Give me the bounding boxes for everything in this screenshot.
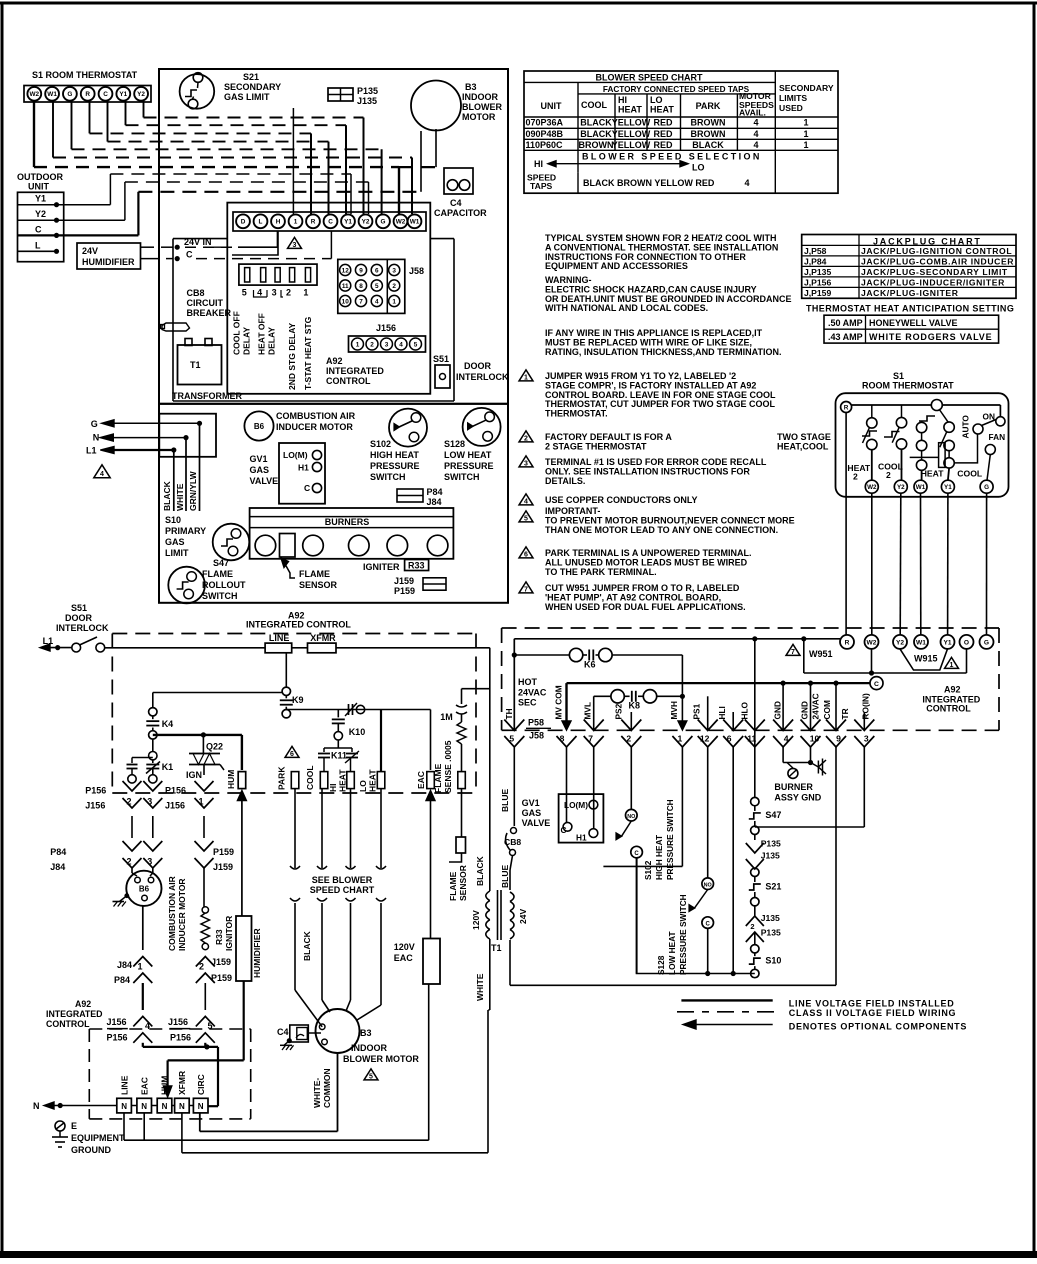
svg-text:C: C [35, 224, 42, 234]
svg-text:L: L [259, 219, 263, 226]
svg-text:HI: HI [534, 159, 543, 169]
svg-text:P135: P135 [357, 86, 378, 96]
svg-text:WHITE RODGERS VALVE: WHITE RODGERS VALVE [869, 332, 992, 342]
svg-text:BLOWER MOTOR: BLOWER MOTOR [343, 1054, 419, 1064]
burners box [250, 508, 454, 559]
fuse XFMR box [308, 643, 337, 653]
svg-text:VALVE: VALVE [250, 476, 279, 486]
svg-text:SWITCH: SWITCH [444, 472, 480, 482]
svg-text:GAS LIMIT: GAS LIMIT [224, 92, 270, 102]
svg-text:K11: K11 [331, 751, 347, 761]
svg-text:3: 3 [385, 342, 389, 349]
svg-text:ROOM THERMOSTAT: ROOM THERMOSTAT [862, 381, 954, 391]
svg-text:WITH NATIONAL AND LOCAL CODES.: WITH NATIONAL AND LOCAL CODES. [545, 303, 708, 313]
svg-text:1: 1 [950, 662, 954, 669]
wire cols 4 and 5 to CIRC [142, 1043, 144, 1047]
note 2 triangle [519, 431, 533, 442]
svg-text:J58: J58 [409, 266, 424, 276]
svg-text:2: 2 [524, 436, 528, 443]
svg-text:WHITE-: WHITE- [312, 1078, 322, 1108]
svg-text:INTEGRATED: INTEGRATED [326, 366, 384, 376]
svg-text:FLAME: FLAME [448, 871, 458, 901]
svg-text:DETAILS.: DETAILS. [545, 476, 585, 486]
svg-text:HUM: HUM [160, 1076, 170, 1095]
wires gnd pins stubs [782, 683, 784, 730]
svg-text:INDOOR: INDOOR [351, 1043, 388, 1053]
svg-text:120V: 120V [394, 942, 415, 952]
svg-text:CONTROL: CONTROL [46, 1019, 90, 1029]
svg-text:24VAC: 24VAC [518, 688, 547, 698]
relay contact K1 with capacitor [149, 752, 157, 760]
svg-text:S102: S102 [370, 439, 391, 449]
svg-text:R: R [311, 219, 316, 226]
svg-text:G: G [381, 219, 386, 226]
svg-text:C4: C4 [277, 1027, 289, 1037]
svg-text:3: 3 [293, 242, 297, 249]
connector P135 J135 chain [746, 843, 764, 853]
limit switch S47 chain [751, 797, 759, 805]
svg-text:THERMOSTAT.: THERMOSTAT. [545, 409, 608, 419]
connector IGN pin [195, 781, 214, 791]
svg-text:FAN: FAN [989, 432, 1006, 442]
svg-text:4: 4 [145, 1021, 150, 1031]
svg-text:INTEGRATED CONTROL: INTEGRATED CONTROL [246, 620, 351, 630]
svg-text:1M: 1M [440, 712, 453, 722]
svg-text:S102: S102 [643, 860, 653, 880]
svg-text:2 STAGE THERMOSTAT: 2 STAGE THERMOSTAT [545, 441, 647, 451]
svg-text:K1: K1 [162, 762, 174, 772]
svg-text:P159: P159 [213, 847, 234, 857]
svg-text:K4: K4 [162, 719, 174, 729]
outdoor unit box [18, 192, 64, 261]
24V humidifier box [77, 243, 141, 269]
svg-text:2ND STG DELAY: 2ND STG DELAY [287, 322, 297, 390]
svg-text:Y2: Y2 [35, 209, 46, 219]
svg-text:5: 5 [509, 734, 514, 744]
svg-text:SEE BLOWER: SEE BLOWER [312, 875, 373, 885]
HLI wire down [732, 747, 734, 974]
svg-text:MOTOR: MOTOR [462, 112, 496, 122]
note 3 triangle [519, 456, 533, 467]
svg-text:CLASS II VOLTAGE FIELD WIRING: CLASS II VOLTAGE FIELD WIRING [789, 1008, 956, 1018]
burner circles [255, 535, 276, 556]
svg-text:W2: W2 [396, 219, 406, 226]
wire humidifier to HUM neutral [243, 981, 245, 1060]
contact to HI HEAT [351, 748, 353, 752]
svg-text:USE COPPER CONDUCTORS ONLY: USE COPPER CONDUCTORS ONLY [545, 495, 698, 505]
transformer T1 [178, 345, 222, 385]
svg-text:GND: GND [800, 701, 810, 719]
wire W2 stub [871, 649, 873, 673]
svg-text:1: 1 [303, 288, 308, 298]
relay contact K9 [282, 687, 290, 695]
main rail top right [514, 638, 840, 640]
svg-text:P58: P58 [528, 718, 544, 728]
svg-text:N: N [141, 1102, 147, 1111]
svg-text:S10: S10 [165, 515, 181, 525]
svg-text:7: 7 [588, 734, 593, 744]
svg-text:RED: RED [653, 140, 673, 150]
svg-text:3: 3 [864, 734, 869, 744]
svg-text:BROWN: BROWN [691, 118, 726, 128]
svg-text:P135: P135 [761, 928, 781, 938]
svg-text:BLACK: BLACK [580, 118, 612, 128]
svg-text:HONEYWELL VALVE: HONEYWELL VALVE [869, 318, 958, 328]
svg-text:HUMIDIFIER: HUMIDIFIER [252, 928, 262, 978]
svg-text:5: 5 [369, 1074, 373, 1081]
svg-text:INTERLOCK: INTERLOCK [456, 372, 509, 382]
svg-text:INTERLOCK: INTERLOCK [56, 623, 109, 633]
note triangle 5 at B3 [364, 1069, 378, 1080]
svg-text:2: 2 [392, 283, 396, 290]
svg-text:P156: P156 [170, 1033, 191, 1043]
relay contact K10 [348, 704, 350, 715]
svg-text:VALVE: VALVE [522, 818, 551, 828]
svg-text:MVL: MVL [583, 702, 593, 720]
equipment ground [55, 1121, 65, 1131]
limit switch S10 chain [751, 945, 759, 953]
svg-text:SECONDARY: SECONDARY [779, 83, 834, 93]
svg-text:HEAT: HEAT [618, 105, 642, 115]
svg-text:Y2: Y2 [896, 639, 904, 646]
terminal row R W2 Y2 W1 Y1 O G [840, 635, 854, 649]
DIP switch block [239, 264, 317, 285]
svg-text:4: 4 [524, 499, 528, 506]
svg-text:BLOWER: BLOWER [462, 102, 502, 112]
see blower speed chart columns [290, 866, 300, 869]
svg-text:3: 3 [524, 461, 528, 468]
svg-text:COMMON: COMMON [322, 1068, 332, 1108]
svg-text:CIRCUIT: CIRCUIT [187, 298, 224, 308]
svg-text:1: 1 [678, 734, 683, 744]
wire outdoor C heavy [57, 234, 139, 236]
thermostat top rail [852, 404, 932, 406]
svg-text:Y2: Y2 [897, 484, 905, 491]
svg-text:LO(M): LO(M) [283, 450, 308, 460]
note 6 triangle [519, 547, 533, 558]
svg-text:E: E [71, 1121, 77, 1131]
wire terminal 1 drop [292, 108, 294, 214]
jumper W951 triangle [786, 644, 800, 655]
svg-text:24VAC: 24VAC [811, 693, 821, 719]
relay contact K8 [594, 695, 611, 697]
svg-text:PRESSURE: PRESSURE [444, 461, 494, 471]
svg-text:LIMIT: LIMIT [165, 548, 189, 558]
svg-text:LINE: LINE [119, 1075, 129, 1095]
svg-text:C: C [328, 219, 333, 226]
svg-text:JACK/PLUG-SECONDARY LIMIT: JACK/PLUG-SECONDARY LIMIT [861, 267, 1008, 277]
svg-text:TO THE PARK TERMINAL.: TO THE PARK TERMINAL. [545, 567, 657, 577]
wires pins to valve [566, 747, 568, 822]
svg-text:2: 2 [286, 288, 291, 298]
svg-text:J135: J135 [761, 851, 780, 861]
svg-text:SEC: SEC [518, 698, 537, 708]
switch heat 2 [867, 418, 877, 428]
svg-text:S128: S128 [444, 439, 465, 449]
svg-text:DELAY: DELAY [267, 327, 277, 355]
wire 24V IN dashed to H terminal [185, 246, 232, 248]
svg-text:N: N [179, 1102, 185, 1111]
svg-text:W951: W951 [809, 649, 833, 659]
svg-text:BLOWER SPEED SELECTION: BLOWER SPEED SELECTION [582, 152, 762, 162]
svg-text:BROWN: BROWN [579, 140, 614, 150]
svg-text:S51: S51 [433, 354, 449, 364]
svg-text:LO(M): LO(M) [564, 800, 588, 810]
svg-text:N: N [198, 1102, 204, 1111]
svg-text:2: 2 [370, 342, 374, 349]
svg-text:SENSOR: SENSOR [458, 865, 468, 901]
svg-text:LO: LO [692, 163, 705, 173]
svg-text:GND: GND [773, 701, 783, 719]
svg-text:USED: USED [779, 103, 803, 113]
svg-text:J,P84: J,P84 [804, 257, 827, 267]
svg-text:R: R [845, 639, 850, 646]
svg-text:GV1: GV1 [250, 454, 268, 464]
svg-text:1: 1 [524, 375, 528, 382]
heat cool stage switches [871, 405, 873, 417]
svg-text:C: C [706, 921, 711, 927]
connector P84 J84 [397, 489, 423, 502]
svg-text:4: 4 [753, 118, 758, 128]
flame sensor rect at burner [280, 534, 296, 558]
svg-text:1: 1 [803, 140, 808, 150]
svg-text:SENSE .0005: SENSE .0005 [443, 740, 453, 793]
svg-text:1: 1 [137, 962, 142, 972]
blower speed chart table [524, 71, 838, 193]
switch cool 2 [896, 417, 906, 427]
svg-text:J156: J156 [85, 801, 105, 811]
burner assy ground [782, 747, 784, 763]
svg-text:K8: K8 [629, 701, 641, 711]
relay contact K6 [513, 639, 515, 731]
svg-text:INTEGRATED: INTEGRATED [46, 1009, 103, 1019]
svg-text:11: 11 [747, 734, 756, 744]
svg-text:IGNITER: IGNITER [363, 562, 400, 572]
svg-text:COOL: COOL [305, 765, 315, 790]
svg-text:K9: K9 [292, 695, 304, 705]
svg-text:P84: P84 [50, 847, 66, 857]
svg-text:TRANSFORMER: TRANSFORMER [172, 391, 242, 401]
svg-text:AVAIL.: AVAIL. [739, 108, 766, 118]
svg-text:P156: P156 [165, 786, 186, 796]
svg-text:R: R [85, 91, 90, 98]
svg-text:Y2: Y2 [362, 219, 370, 226]
svg-text:RED: RED [653, 129, 673, 139]
svg-text:7: 7 [791, 649, 795, 656]
svg-text:BLACK: BLACK [302, 930, 312, 961]
svg-text:G: G [984, 484, 989, 491]
svg-text:W2: W2 [867, 484, 877, 491]
svg-text:PARK: PARK [277, 766, 287, 790]
note triangle 4 field wiring [94, 465, 110, 478]
switch heat 1 [916, 422, 926, 432]
svg-text:2: 2 [886, 470, 891, 480]
svg-text:BREAKER: BREAKER [187, 308, 232, 318]
24V secondary return [509, 940, 511, 985]
svg-text:C: C [304, 483, 310, 493]
jumper W915 bracket [900, 649, 948, 670]
svg-text:GAS: GAS [250, 465, 270, 475]
svg-text:EAC: EAC [394, 953, 414, 963]
wire bundle tstat to A92 strip [143, 101, 145, 118]
svg-text:DELAY: DELAY [242, 327, 252, 355]
svg-text:OUTDOOR: OUTDOOR [17, 172, 63, 182]
note 7 triangle [519, 582, 533, 593]
wire humidifier to 24V IN [140, 246, 154, 248]
svg-text:5: 5 [524, 516, 528, 523]
svg-text:2: 2 [750, 922, 754, 931]
svg-text:CB8: CB8 [504, 837, 521, 847]
svg-text:HLI: HLI [717, 706, 727, 719]
svg-text:CAPACITOR: CAPACITOR [434, 208, 487, 218]
svg-text:6: 6 [290, 751, 294, 758]
svg-text:ROLLOUT: ROLLOUT [202, 580, 246, 590]
svg-text:HUM: HUM [226, 770, 236, 789]
svg-text:YELLOW: YELLOW [612, 140, 651, 150]
svg-text:A92: A92 [326, 356, 343, 366]
svg-text:10: 10 [342, 298, 350, 305]
wire RO(IN) to S47 junction [863, 747, 865, 827]
svg-text:HEAT: HEAT [921, 469, 945, 479]
svg-text:S1 ROOM THERMOSTAT: S1 ROOM THERMOSTAT [32, 70, 138, 80]
svg-text:K6: K6 [584, 660, 596, 670]
flame sensor pointer [281, 558, 289, 568]
pressure switch S128 symbol [463, 408, 501, 446]
svg-text:Y1: Y1 [35, 194, 46, 204]
svg-text:P156: P156 [107, 1033, 128, 1043]
svg-text:W1: W1 [410, 219, 420, 226]
svg-text:4: 4 [784, 734, 789, 744]
svg-text:TAPS: TAPS [530, 181, 553, 191]
svg-text:BURNERS: BURNERS [325, 517, 370, 527]
svg-text:UNIT: UNIT [28, 182, 49, 192]
svg-text:J,P135: J,P135 [804, 267, 831, 277]
note 5 triangle [519, 511, 533, 522]
svg-text:H: H [276, 219, 281, 226]
svg-text:SPEED CHART: SPEED CHART [310, 885, 375, 895]
legend [681, 999, 772, 1001]
svg-text:5: 5 [242, 288, 247, 298]
svg-text:W2: W2 [867, 639, 877, 646]
svg-text:7: 7 [524, 587, 528, 594]
relay contact K4 [149, 708, 157, 716]
svg-text:D: D [241, 219, 246, 226]
wire PS1 to S128 [707, 747, 709, 878]
pin row bottom right [504, 720, 524, 731]
svg-text:SWITCH: SWITCH [370, 472, 406, 482]
wire C dashed to C terminal [196, 258, 331, 260]
svg-text:BLUE: BLUE [500, 789, 510, 812]
svg-text:S47: S47 [213, 558, 229, 568]
svg-text:EQUIPMENT AND ACCESSORIES: EQUIPMENT AND ACCESSORIES [545, 261, 688, 271]
wire LINE junction down [285, 653, 287, 687]
svg-text:S1: S1 [893, 371, 904, 381]
svg-text:PRESSURE SWITCH: PRESSURE SWITCH [678, 894, 688, 975]
HUM output [241, 735, 243, 770]
svg-text:J84: J84 [50, 862, 65, 872]
svg-text:Y2: Y2 [137, 91, 145, 98]
note triangle 6 ladder [285, 746, 299, 757]
svg-text:J,P159: J,P159 [804, 288, 831, 298]
blower motor B3 top [411, 81, 461, 131]
switch cool 1 arm from rail [931, 400, 942, 411]
wire TH to CB8 [513, 747, 515, 826]
svg-text:COM: COM [822, 700, 832, 719]
svg-text:W1: W1 [916, 639, 926, 646]
svg-text:LOW HEAT: LOW HEAT [444, 450, 492, 460]
svg-text:4: 4 [375, 298, 379, 305]
wire K9 top to K4 [153, 692, 282, 694]
svg-text:5: 5 [375, 283, 379, 290]
svg-text:XFMR: XFMR [310, 633, 336, 643]
svg-text:4: 4 [753, 140, 758, 150]
wire LINE EAC neutral run [123, 1113, 125, 1140]
svg-text:9: 9 [836, 734, 841, 744]
svg-text:4: 4 [100, 471, 104, 478]
svg-text:PS1: PS1 [692, 703, 702, 719]
svg-text:HIGH HEAT: HIGH HEAT [370, 450, 419, 460]
svg-text:HEAT: HEAT [368, 769, 378, 792]
svg-text:LINE: LINE [269, 633, 290, 643]
flame sensor probe [456, 837, 466, 853]
svg-text:T1: T1 [190, 360, 201, 370]
svg-text:S51: S51 [71, 603, 87, 613]
svg-text:1: 1 [803, 118, 808, 128]
wire outdoor Y2 to strip [57, 219, 125, 221]
svg-text:2: 2 [853, 472, 858, 482]
svg-text:LINE VOLTAGE FIELD INSTALLED: LINE VOLTAGE FIELD INSTALLED [789, 998, 955, 1008]
svg-text:IGNITOR: IGNITOR [224, 916, 234, 951]
motor B6 ladder [132, 873, 137, 876]
svg-text:CONTROL: CONTROL [326, 376, 371, 386]
svg-text:2: 2 [127, 797, 132, 807]
neutral terminal boxes [117, 1098, 132, 1113]
svg-text:GAS: GAS [165, 537, 185, 547]
svg-text:JACK/PLUG-INDUCER/IGNITER: JACK/PLUG-INDUCER/IGNITER [861, 278, 1005, 288]
connector J135 P135 chain up [746, 916, 764, 926]
svg-text:6: 6 [524, 552, 528, 559]
svg-text:CONTROL: CONTROL [926, 704, 971, 714]
svg-text:HEAT: HEAT [650, 105, 674, 115]
svg-text:R33: R33 [214, 929, 224, 945]
svg-text:W1: W1 [47, 91, 57, 98]
svg-text:EAC: EAC [416, 771, 426, 789]
wires into blower motor B3 [295, 990, 322, 1027]
svg-text:G: G [984, 639, 989, 646]
svg-text:WHITE: WHITE [175, 483, 185, 511]
A92 dashed box bottom-right [502, 627, 999, 629]
svg-text:BLOWER SPEED CHART: BLOWER SPEED CHART [595, 73, 703, 83]
blower motor B3 bottom [316, 1009, 360, 1053]
svg-text:MVH: MVH [669, 701, 679, 719]
connector J58 grid [338, 259, 405, 313]
svg-text:2: 2 [199, 962, 204, 972]
svg-text:CB8: CB8 [187, 288, 205, 298]
svg-text:090P48B: 090P48B [526, 129, 564, 139]
svg-text:HEAT: HEAT [847, 463, 871, 473]
svg-text:SENSOR: SENSOR [299, 580, 338, 590]
svg-text:S47: S47 [765, 810, 781, 820]
wire outdoor Y1 to strip [57, 204, 111, 206]
svg-text:.43 AMP: .43 AMP [828, 332, 863, 342]
svg-text:C4: C4 [450, 198, 462, 208]
svg-text:T1: T1 [491, 943, 502, 953]
svg-text:WHEN USED FOR DUAL FUEL APPLIC: WHEN USED FOR DUAL FUEL APPLICATIONS. [545, 602, 746, 612]
svg-text:K10: K10 [349, 727, 366, 737]
svg-text:P84: P84 [427, 487, 443, 497]
svg-text:J156: J156 [168, 1017, 188, 1027]
wire K6 to MVH pin1 [681, 655, 683, 725]
